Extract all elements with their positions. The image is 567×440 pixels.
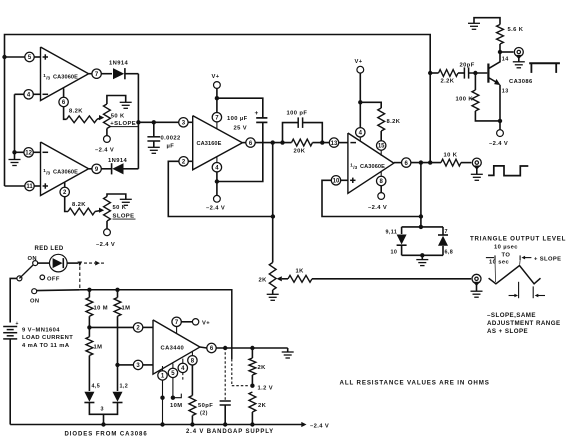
op-amp U3 pin 6 output [200, 343, 216, 352]
wire pin12 stub [33, 151, 40, 153]
label 100uF [227, 116, 248, 122]
node pin5 b [171, 396, 175, 400]
wire pin4 stub [33, 93, 40, 95]
node pin2 junction (U3) [87, 325, 91, 329]
wire pin4 to pin12 vertical [14, 94, 16, 152]
op-amp U1c pin 10 [331, 176, 340, 185]
wire pin5 down [172, 378, 174, 398]
node diode clamp junction [419, 214, 423, 218]
wire rail vertical to 1.2V tap [232, 359, 248, 386]
wire 1M b to diode [88, 356, 90, 392]
wire pin7 up to V+ [216, 88, 218, 112]
label 2K (upper) [258, 365, 267, 371]
svg-text:–2.4 V: –2.4 V [206, 206, 225, 212]
dim fall right [533, 286, 545, 298]
svg-text:1M: 1M [94, 345, 103, 351]
capacitor 0.0022uF [147, 122, 160, 141]
label 2K (lower) [258, 403, 267, 409]
wire pin7 U3 stub down [176, 327, 178, 334]
U2 label CA3160E [197, 141, 222, 147]
U1a label 1/3 [43, 73, 50, 81]
svg-text:15: 15 [378, 144, 385, 150]
capacitor 100pF loop [283, 117, 323, 142]
wire clamp bracket bottom [402, 254, 443, 256]
wire -slope pot top to ground bracket [107, 194, 126, 199]
svg-text:CA3060E: CA3060E [53, 169, 78, 175]
svg-text:8.2K: 8.2K [72, 202, 86, 208]
svg-text:9 V–MN1604: 9 V–MN1604 [22, 327, 60, 333]
node rail (diodes) [101, 422, 105, 426]
svg-text:/3: /3 [46, 76, 50, 81]
node feedback/pot junction [271, 214, 275, 218]
svg-text:9,11: 9,11 [386, 230, 398, 236]
wire 100uF bottom to pin4 rail [217, 122, 263, 181]
op-amp U1b pin 12 [24, 148, 33, 157]
svg-text:1N914: 1N914 [109, 61, 128, 67]
svg-text:13: 13 [502, 89, 509, 95]
resistor 100K [472, 90, 479, 111]
potentiometer 50K -SLOPE [104, 197, 111, 222]
node 0.0022uF tap [152, 120, 156, 124]
svg-text:ADJUSTMENT RANGE: ADJUSTMENT RANGE [487, 320, 561, 327]
label TRIANGLE OUTPUT LEVEL [470, 236, 566, 243]
op-amp U2 pin 7 [212, 113, 221, 122]
wire pin6 stub up [63, 88, 65, 97]
wire -slope pot bottom [106, 221, 108, 229]
node 1.2V tap [250, 384, 254, 388]
wire pot top to ground bracket [107, 96, 126, 105]
diode D2 1N914 [112, 163, 124, 174]
svg-text:2K: 2K [258, 403, 267, 409]
wire pin13 stub [339, 142, 348, 144]
terminal -2.4V (Q1) [497, 130, 504, 137]
wire pole to battery [10, 278, 17, 322]
U1b label CA3060E [53, 169, 78, 175]
dim fall left [509, 282, 519, 298]
wire junction to pin2 U3 [89, 326, 133, 328]
U1b - input sign [43, 151, 49, 153]
wire junction to pin3 U3 [118, 364, 134, 366]
ground below 2K pot [267, 294, 279, 300]
label -2.4 V [95, 148, 114, 154]
resistor 2K (lower) [249, 392, 256, 412]
resistor 10M (U3) [189, 396, 196, 416]
svg-text:2.4 V BANDGAP SUPPLY: 2.4 V BANDGAP SUPPLY [186, 429, 274, 435]
resistor 10M [86, 298, 93, 317]
label 9,11 [386, 230, 398, 236]
resistor 1M (a) [114, 298, 121, 317]
svg-text:10: 10 [333, 178, 340, 184]
label AS + SLOPE [487, 328, 528, 335]
node 2K divider tap [250, 346, 254, 350]
wire pin7 to V+ terminal [181, 321, 192, 323]
op-amp U2 pin 3 [179, 118, 188, 127]
terminal V+ (U3) [192, 319, 198, 325]
wire output to 10K [411, 162, 441, 164]
wire pin6 down to resistor [64, 107, 67, 120]
op-amp U1c pin 4 bias [356, 128, 365, 137]
wire 20K to pin13 [313, 142, 330, 144]
switch pole [17, 276, 22, 281]
svg-text:CA3060E: CA3060E [360, 164, 385, 170]
svg-text:14: 14 [502, 57, 509, 63]
wire emitter to -2.4V [499, 121, 501, 130]
svg-text:–2.4 V: –2.4 V [95, 148, 114, 154]
wire pin2 U3 stub [143, 326, 153, 328]
wire divider top [251, 348, 253, 358]
wire pin1 down to rail [162, 380, 164, 424]
label 13 (emitter pin) [502, 89, 509, 95]
label 2.4V BANDGAP SUPPLY [186, 429, 274, 435]
wire pin7 stub down [216, 122, 218, 129]
wire 2K to tap [251, 375, 253, 386]
op-amp U3 pin 7 [172, 317, 181, 326]
wire contact to LED [38, 262, 50, 264]
svg-text:1.2 V: 1.2 V [258, 385, 274, 391]
label 8.2K [69, 109, 83, 115]
svg-text:1N914: 1N914 [108, 158, 127, 164]
node 100pF branch left [280, 140, 284, 144]
svg-text:20pF: 20pF [460, 63, 475, 69]
label 1M (a) [122, 306, 131, 312]
wiper arrow into +SLOPE pot [97, 115, 104, 120]
wire pin1 stub up [162, 366, 164, 371]
wire right clamp bottom [442, 246, 444, 255]
dim left tick [486, 255, 496, 282]
svg-text:0.0022: 0.0022 [161, 136, 181, 142]
op-amp U1c pin 15 [377, 141, 386, 150]
label 4mA TO 11mA [22, 343, 70, 349]
label 2.2K [441, 79, 455, 85]
wire to pin 11 [5, 185, 25, 187]
label 8.2K (U1b) [72, 202, 86, 208]
diode D7 (4,5) [84, 392, 94, 403]
wire 10K to terminal [461, 162, 471, 164]
wire 1K to triangle output terminal [312, 278, 471, 280]
label 20K [294, 149, 306, 155]
svg-text:13: 13 [331, 141, 338, 147]
label RED LED [35, 246, 64, 252]
resistor 8.2K (U1a bias) [67, 116, 98, 123]
ground at U3 output right [282, 348, 294, 358]
label 14 (collector pin) [502, 57, 509, 63]
svg-text:1K: 1K [296, 269, 305, 275]
terminal triangle output [472, 274, 481, 286]
svg-text:10M: 10M [170, 403, 182, 409]
svg-text:ON: ON [30, 298, 40, 304]
svg-text:ALL RESISTANCE VALUES ARE IN O: ALL RESISTANCE VALUES ARE IN OHMS [340, 380, 490, 387]
op-amp U1c pin 6 output [394, 158, 411, 167]
svg-text:10: 10 [391, 250, 398, 256]
wire pin15 stub [380, 150, 382, 156]
terminal V+ (U1c) [357, 66, 364, 73]
svg-text:AS + SLOPE: AS + SLOPE [487, 328, 528, 335]
wire pin9 to D2 [101, 168, 111, 170]
wire pot bottom to ground [272, 290, 274, 294]
wire output U3 [216, 347, 288, 349]
label + SLOPE (waveform) [534, 256, 561, 262]
node base junction [473, 71, 477, 75]
wire pin2 stub [188, 160, 192, 162]
wire top rail bottom-left [80, 290, 232, 359]
wire pin3 U3 stub [143, 364, 153, 366]
U1c + input sign [350, 178, 355, 183]
label 1N914 (D2) [108, 158, 127, 164]
node comparator output junction [136, 120, 140, 124]
ground for -SLOPE pot [120, 199, 132, 205]
svg-text:3: 3 [101, 407, 104, 413]
terminal -2.4V (+slope pot) [104, 136, 111, 143]
dashed annotation arrow [84, 261, 106, 266]
terminal V+ (U2) [214, 82, 221, 89]
svg-text:50 K: 50 K [111, 114, 125, 120]
wire rail to 1M a [117, 290, 119, 298]
op-amp U1b pin 2 bias [60, 187, 69, 196]
label 10 sec [489, 260, 510, 266]
label 5.6 K [508, 27, 524, 33]
svg-text:OFF: OFF [47, 276, 60, 282]
label 1M (b) [94, 345, 103, 351]
svg-text:CA3160E: CA3160E [197, 141, 222, 147]
U1b label 1/3 [43, 168, 50, 176]
resistor 1M (b) [86, 337, 93, 356]
wire pin2bias down to resistor [65, 197, 68, 212]
op-amp U2 CA3160E [193, 116, 243, 170]
label +SLOPE [110, 121, 138, 127]
svg-text:50pF: 50pF [198, 403, 213, 409]
label -SLOPE,SAME [487, 312, 536, 319]
potentiometer 2K [269, 263, 276, 291]
label SLOPE [113, 214, 136, 220]
svg-text:20K: 20K [294, 149, 306, 155]
op-amp U1b pin 11 is above; pin 9 output [89, 164, 102, 173]
svg-text:+: + [16, 321, 19, 327]
wire clamp bracket top [402, 226, 443, 228]
svg-text:5.6 K: 5.6 K [508, 27, 524, 33]
svg-text:/3: /3 [353, 165, 357, 170]
node clamp bottom [420, 253, 424, 257]
icon square wave (mid) [488, 166, 528, 176]
svg-text:–2.4 V: –2.4 V [310, 423, 329, 429]
label -2.4 V (-slope) [96, 242, 115, 248]
svg-text:7: 7 [445, 229, 448, 235]
node loop return junction [428, 160, 432, 164]
terminal -2.4V (U2 pin4) [214, 195, 221, 202]
node rail (pin1) [160, 422, 164, 426]
svg-text:25 V: 25 V [234, 125, 248, 131]
node pin1/5 a [160, 396, 164, 400]
wire 2.2K to 20pF [458, 72, 464, 74]
wire bracket to rail [103, 414, 105, 424]
wire pin4 stub up [216, 157, 218, 163]
U1a + input sign [43, 54, 48, 59]
diode D1 1N914 [113, 68, 125, 79]
wire battery to rail [9, 339, 11, 425]
node 2.2K junction [428, 71, 432, 75]
terminal -2.4V (U1c pin8) [378, 193, 385, 200]
wire pin8 U3 stub up [191, 352, 193, 356]
svg-text:V+: V+ [355, 59, 363, 65]
label 3 (diode common) [101, 407, 104, 413]
label 1K [296, 269, 305, 275]
op-amp U1a pin 4 [24, 90, 33, 99]
svg-text:LOAD CURRENT: LOAD CURRENT [22, 335, 73, 341]
wire 8.2K to pin15 [380, 131, 382, 141]
resistor 8.2K (U1b bias) [68, 208, 95, 215]
label 6,8 [445, 250, 454, 256]
op-amp U1a pin 6 bias [59, 97, 68, 106]
wire to 2.2K [430, 72, 438, 74]
wire vertical D1/D2 node [137, 74, 139, 169]
wire pin5 tick [173, 394, 181, 398]
svg-text:4,5: 4,5 [92, 384, 101, 390]
svg-text:100 µF: 100 µF [227, 116, 248, 122]
wire base to 100K [474, 73, 476, 90]
wire 1M a to diode 1,2 [117, 365, 119, 391]
wire left clamp stub [401, 227, 403, 234]
wire 5.6K to collector [499, 44, 501, 52]
label 10 K [444, 153, 458, 159]
svg-text:V+: V+ [212, 74, 220, 80]
label V+ (U2) [212, 74, 220, 80]
op-amp U1c 1/3 CA3060E [348, 133, 394, 193]
label 25 V [234, 125, 248, 131]
wire pin4bias up to V+ [359, 73, 361, 128]
label 50 K (-slope) [113, 205, 127, 211]
wire pin3 stub [188, 121, 193, 123]
U1b + input sign [43, 183, 48, 188]
svg-text:(2): (2) [200, 411, 208, 417]
svg-text:10 K: 10 K [444, 153, 458, 159]
wire -2.4V rail [10, 424, 303, 426]
op-amp U1a pin 5 [25, 52, 34, 61]
wire pot bottom [106, 129, 108, 136]
capacitor 100uF 25V [256, 118, 267, 123]
LED circle [50, 254, 68, 272]
op-amp U2 pin 2 [179, 157, 188, 166]
label V+ (U1c) [355, 59, 363, 65]
op-amp U1a pin 11 [25, 181, 34, 190]
svg-text:11: 11 [26, 184, 33, 190]
label 10M (U3) [170, 403, 182, 409]
wire pin7 to D1 [101, 73, 112, 75]
label 10 usec [494, 245, 518, 251]
svg-text:–2.4 V: –2.4 V [368, 205, 387, 211]
wire 20pF to base [469, 72, 487, 74]
resistor 8.2K (U1c bias) [378, 108, 385, 131]
wire pin4 left [15, 93, 25, 95]
svg-text:DIODES FROM CA3086: DIODES FROM CA3086 [65, 432, 148, 438]
ground below clamp [416, 255, 428, 265]
wiper arrow into 2K pot [277, 276, 288, 281]
node pin4/pin12 junction [12, 150, 16, 154]
op-amp U1c pin 8 bias [377, 176, 386, 185]
node V+ junction U2 [215, 96, 219, 100]
label DIODES FROM CA3086 [65, 432, 148, 438]
resistor 2.2K [439, 70, 459, 77]
op-amp U3 pin 4 [178, 363, 187, 372]
ground below sq output [471, 167, 483, 180]
svg-text:µF: µF [167, 144, 175, 150]
wire pin10 stub [341, 179, 348, 181]
transistor Q1 CA3086 base bar [487, 64, 489, 83]
wire pin11 stub [34, 185, 40, 187]
svg-text:CA3060E: CA3060E [53, 74, 78, 80]
node 10M top [87, 288, 91, 292]
node 1M top [115, 288, 119, 292]
svg-text:10 sec: 10 sec [489, 260, 510, 266]
wire 100K to emitter rail [475, 111, 500, 121]
label 4,5 [92, 384, 101, 390]
diode D6 (7-6,8) [438, 235, 448, 246]
label -2.4 V (U1c) [368, 205, 387, 211]
wire right clamp stub [442, 227, 444, 235]
wire V+ junction to 8.2K [360, 102, 381, 108]
svg-text:V+: V+ [202, 320, 210, 326]
wire LED to node [67, 262, 78, 264]
node emitter junction [498, 119, 502, 123]
svg-text:2K: 2K [258, 365, 267, 371]
wire diode bracket [89, 403, 117, 415]
node pin3 junction (U3) [115, 363, 119, 367]
node pin4 rail junction [215, 179, 219, 183]
dim right tick [520, 255, 532, 264]
wire pin4 U3 stub up [182, 359, 184, 364]
label ON (upper) [28, 256, 38, 262]
svg-text:12: 12 [25, 150, 32, 156]
terminal -2.4V (-slope pot) [104, 229, 111, 236]
svg-text:10 µsec: 10 µsec [494, 245, 518, 251]
wire pin5 stub up [172, 364, 174, 369]
svg-text:/3: /3 [46, 171, 50, 176]
ground below pin12 junction [9, 152, 21, 165]
ground below triangle output [471, 284, 483, 298]
svg-text:TO: TO [502, 253, 511, 259]
resistor 1K [288, 275, 312, 282]
node rail (2K) [250, 422, 254, 426]
resistor 5.6K [497, 25, 504, 45]
wire left clamp bottom [401, 245, 403, 255]
U1c - input sign [350, 142, 356, 144]
wire pin6 node down to pot [272, 143, 274, 263]
dashed LED drop [79, 267, 81, 290]
label 10 M [94, 306, 109, 312]
label ON (lower) [30, 298, 40, 304]
Q1 collector lead [488, 52, 500, 69]
U3 label CA3440 [161, 346, 185, 352]
wire pin8 down to 10M [191, 365, 193, 396]
label 1,2 [120, 384, 129, 390]
waveform triangle [489, 266, 541, 284]
svg-text:1M: 1M [122, 306, 131, 312]
label (2) [200, 411, 208, 417]
label CA3086 [509, 79, 533, 85]
op-amp U1c pin 13 [329, 138, 338, 147]
node V+ junction U1c [358, 100, 362, 104]
label 50 K [111, 114, 125, 120]
LED node arrowhead [77, 262, 82, 267]
wire pin10 feedback [322, 180, 421, 216]
wire pin8 down [380, 186, 382, 193]
svg-text:10 M: 10 M [94, 306, 109, 312]
svg-text:CA3440: CA3440 [161, 346, 185, 352]
label ALL RESISTANCE VALUES ARE IN OHMS [340, 380, 490, 387]
wire 5.6K top to ground [474, 18, 500, 25]
Q1 emitter lead [488, 78, 500, 121]
label 50pF [198, 403, 213, 409]
label -2.4 V (Q1) [489, 141, 508, 147]
ground below 0.0022uF [148, 141, 160, 153]
